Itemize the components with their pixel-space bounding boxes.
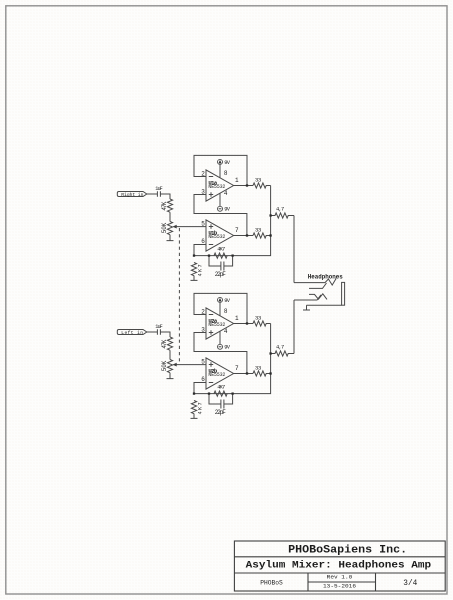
svg-text:U2b: U2b (208, 367, 217, 374)
svg-text:PHOBoS: PHOBoS (260, 579, 283, 586)
svg-text:PHOBoSapiens Inc.: PHOBoSapiens Inc. (288, 545, 407, 557)
svg-text:U2a: U2a (208, 317, 217, 324)
svg-text:Asylum Mixer: Headphones Amp: Asylum Mixer: Headphones Amp (246, 559, 432, 571)
svg-text:U1b: U1b (208, 229, 217, 236)
svg-text:Rev 1.0: Rev 1.0 (327, 574, 353, 581)
svg-text:U1a: U1a (208, 179, 217, 186)
svg-text:3/4: 3/4 (403, 579, 417, 588)
svg-text:Headphones: Headphones (308, 274, 343, 281)
svg-text:Left in: Left in (121, 330, 143, 336)
svg-text:13-5-2016: 13-5-2016 (323, 582, 357, 589)
svg-text:Right in: Right in (121, 192, 143, 198)
